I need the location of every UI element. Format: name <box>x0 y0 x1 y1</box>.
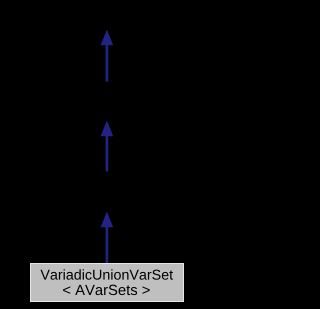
label line 2: < AVarSets > <box>63 285 150 295</box>
wire: inheritance edge 1 (topmost) <box>106 44 109 82</box>
class box VariadicUnionVarSet <box>31 264 184 302</box>
inheritance graph <box>0 0 213 309</box>
arrowhead 2 <box>101 121 114 137</box>
label line 1: VariadicUnionVarSet <box>40 269 173 280</box>
wire: inheritance edge 3 (bottom) <box>106 226 109 264</box>
arrowhead 3 <box>101 212 114 228</box>
wire: inheritance edge 2 (middle) <box>106 135 109 172</box>
arrowhead 1 <box>101 30 114 46</box>
